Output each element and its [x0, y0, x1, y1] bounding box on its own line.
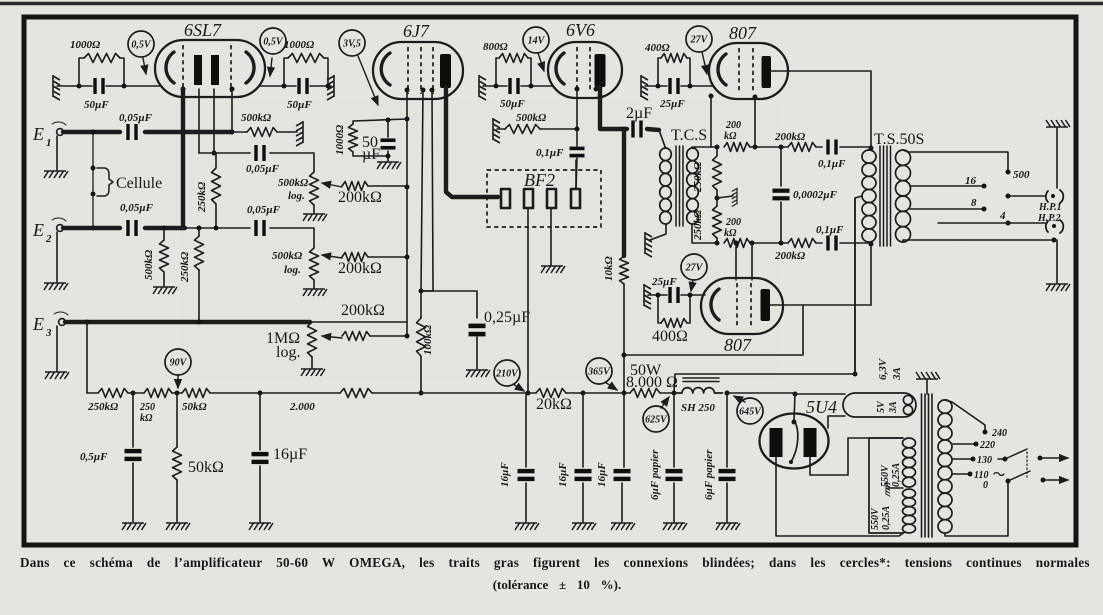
TCS secondary top wire — [692, 147, 717, 148]
807T anode wire — [771, 71, 871, 147]
BF2 pin3 wire to ground — [550, 208, 552, 265]
tube 807 bottom envelope — [701, 278, 783, 334]
svg-text:50kΩ: 50kΩ — [188, 459, 224, 476]
svg-text:200kΩ: 200kΩ — [341, 302, 385, 319]
wire grid2 line — [213, 89, 215, 153]
svg-text:500kΩ: 500kΩ — [516, 112, 547, 124]
svg-text:log.: log. — [284, 264, 301, 276]
pot 500k&#937; log #1 — [310, 172, 319, 205]
807B grid wires up — [735, 243, 737, 280]
svg-text:220: 220 — [979, 440, 995, 451]
wire grid1 line — [198, 89, 200, 153]
svg-text:200kΩ: 200kΩ — [338, 189, 382, 206]
6SL7 grid 1 dashed — [182, 45, 184, 92]
svg-text:645V: 645V — [739, 406, 762, 417]
switch upper arm — [1005, 449, 1027, 459]
svg-text:807: 807 — [729, 23, 757, 43]
TS50S secondary coil — [896, 150, 911, 165]
svg-text:log.: log. — [288, 190, 305, 202]
svg-text:400Ω: 400Ω — [652, 328, 688, 345]
wire cathode to RC — [353, 119, 407, 124]
resistor 500k&#937; 6V6 grid — [497, 128, 505, 130]
807T grids dashed — [738, 48, 740, 93]
grid bus thick 6SL7 — [181, 89, 185, 228]
svg-text:16µF: 16µF — [273, 446, 307, 463]
tube 6J7 envelope — [373, 42, 463, 99]
voltage 210V circle — [494, 360, 520, 386]
resistor 200k&#937; #1 — [322, 183, 342, 187]
svg-text:µF: µF — [362, 146, 380, 163]
svg-text:kΩ: kΩ — [724, 228, 737, 239]
svg-text:200kΩ: 200kΩ — [774, 250, 806, 262]
TCS secondary bottom wire — [692, 224, 717, 243]
svg-text:250kΩ: 250kΩ — [692, 161, 704, 193]
svg-text:0,25µF: 0,25µF — [484, 309, 530, 326]
resistor 250k&#937; upper — [715, 145, 720, 150]
807T anode bar — [762, 56, 772, 88]
6V6 cathode arc — [556, 53, 564, 84]
svg-text:250kΩ: 250kΩ — [179, 251, 191, 283]
6SL7 grid 2 dashed — [230, 45, 232, 92]
ground 50uF 6J7 — [377, 162, 401, 169]
5V winding bottom wire — [828, 416, 845, 428]
807B anode bar — [761, 289, 771, 321]
resistor 8.000&#937; — [624, 392, 630, 394]
6SL7 cathode arc left — [166, 52, 174, 83]
svg-text:E: E — [32, 124, 44, 144]
resistor 400&#937; 807T — [658, 58, 661, 86]
tube 5U4 envelope — [760, 414, 829, 469]
PT HV center tap — [888, 487, 903, 489]
6V6 anode thick down — [600, 87, 622, 129]
bus wire mid — [421, 392, 528, 394]
svg-text:800Ω: 800Ω — [483, 41, 509, 53]
svg-text:0,05µF: 0,05µF — [246, 163, 280, 175]
svg-text:E: E — [32, 220, 44, 240]
switch link dotted — [1026, 452, 1028, 477]
svg-text:0,5V: 0,5V — [263, 36, 284, 47]
svg-text:500kΩ: 500kΩ — [278, 177, 309, 189]
resistor 250k&#937; #1 vertical — [215, 153, 217, 168]
TCS secondary coil — [687, 148, 699, 161]
BF2 pin2 wire to bus — [527, 208, 529, 392]
svg-text:200kΩ: 200kΩ — [338, 260, 382, 277]
svg-text:log.: log. — [276, 344, 300, 361]
resistor 200k&#937; chain-bot-1 — [724, 239, 750, 248]
svg-text:5U4: 5U4 — [806, 397, 837, 417]
svg-text:6,3V: 6,3V — [877, 357, 889, 380]
ground 6SL7 cathode left — [53, 75, 60, 100]
capacitor 16&#181;F a — [259, 393, 261, 450]
HP common down to ground — [1054, 240, 1057, 283]
page top rule — [0, 2, 1103, 5]
ground E2 — [56, 232, 58, 282]
arrow 0,5V to wire — [143, 58, 146, 74]
capacitor 50&#181;F 6V6 — [508, 78, 511, 94]
svg-text:210V: 210V — [495, 368, 519, 379]
6J7 grids dashed — [407, 47, 409, 94]
807T grid pins — [709, 94, 714, 99]
svg-text:16µF: 16µF — [499, 462, 511, 487]
svg-text:10kΩ: 10kΩ — [603, 256, 615, 282]
svg-text:Cellule: Cellule — [116, 175, 162, 192]
tap 220 — [952, 443, 974, 445]
svg-text:8: 8 — [971, 197, 977, 209]
arrow 625V — [661, 397, 669, 408]
5U4 anode bar right — [804, 428, 817, 457]
6V6 grid wire down — [576, 89, 578, 146]
voltage 27V circle top — [686, 26, 712, 52]
resistor 10k&#937; — [620, 256, 629, 284]
voltage 365V circle — [586, 358, 612, 384]
resistor 200k&#937; #3 — [322, 336, 342, 338]
capacitor 6&#181;F papier 2 — [726, 393, 728, 467]
6J7 anode bar — [440, 54, 451, 88]
capacitor 0,1&#181;F bottom chain — [826, 236, 829, 251]
wire screen row — [624, 305, 803, 355]
5U4 top feed — [794, 394, 795, 420]
jack E2 — [57, 225, 64, 232]
svg-text:E: E — [32, 314, 44, 334]
svg-text:50µF: 50µF — [287, 99, 312, 111]
6SL7 anode bar 2 — [211, 55, 219, 85]
capacitor 16&#181;F d — [623, 393, 625, 467]
wire tube pin to E1 — [231, 89, 233, 132]
node 0,25uF tap — [419, 289, 424, 294]
5U4 left anode wire — [776, 457, 905, 536]
capacitor 16&#181;F c — [582, 393, 584, 467]
resistor 1000&#937; 6J7 — [349, 124, 358, 152]
svg-text:0,1µF: 0,1µF — [536, 147, 564, 159]
svg-text:50µF: 50µF — [84, 99, 109, 111]
6J7 anode thick wire to BF2 — [446, 88, 498, 197]
capacitor 25&#181;F 807T — [668, 78, 671, 94]
PT HV winding 1 — [903, 438, 916, 448]
svg-text:14V: 14V — [528, 35, 546, 46]
ground wall 807T cathode — [641, 75, 648, 100]
ground wall 6SL7 right — [327, 75, 334, 100]
node choke right — [725, 391, 730, 396]
svg-text:kΩ: kΩ — [140, 413, 153, 424]
choke SH250 coil — [674, 388, 722, 393]
svg-text:3A: 3A — [891, 367, 903, 381]
svg-text:100kΩ: 100kΩ — [422, 324, 434, 355]
wire E1 shielded — [63, 130, 120, 134]
svg-text:0,1µF: 0,1µF — [816, 224, 844, 236]
wire E2 shielded — [63, 226, 120, 230]
6J7 cathode node — [406, 90, 408, 119]
BF2 dashed box — [487, 170, 601, 227]
TCS primary coil — [660, 148, 672, 161]
voltage 0,5V circle 1 — [128, 31, 154, 57]
secondary tap 8 wire — [910, 208, 982, 210]
HP1 plug — [1046, 191, 1048, 202]
node screen feed — [622, 127, 627, 132]
svg-text:25µF: 25µF — [659, 98, 685, 110]
node 0,05uF row1 — [212, 151, 217, 156]
HP2 plug — [1046, 221, 1048, 232]
svg-text:BF2: BF2 — [524, 170, 555, 190]
tap 130 — [952, 458, 971, 460]
cap 0,0002uF tap — [779, 145, 784, 150]
resistor 100k&#937; vertical — [417, 318, 426, 356]
svg-text:(tolérance ± 10 %).: (tolérance ± 10 %). — [493, 577, 622, 592]
svg-text:3V,5: 3V,5 — [342, 38, 361, 49]
5V winding turns — [903, 395, 912, 404]
capacitor 50&#181;F 6J7 — [387, 120, 389, 137]
arrow 27V bottom — [691, 280, 693, 291]
TS50S core — [880, 146, 891, 246]
svg-text:6V6: 6V6 — [566, 20, 595, 40]
main bus left segment — [87, 392, 98, 394]
arrow 0,5V-2 — [270, 58, 272, 76]
tap 110 — [952, 473, 968, 475]
svg-text:4: 4 — [999, 210, 1006, 222]
5U4 right anode wire — [810, 438, 901, 475]
tube 807 top envelope — [709, 43, 788, 99]
arrow 27V top — [702, 52, 707, 74]
BF2 pin4 wire up — [575, 160, 577, 189]
TCS primary bottom to ground — [650, 224, 666, 240]
5U4 filament arc — [791, 420, 798, 462]
BF2 pin 2 — [524, 189, 533, 208]
TS50S center tap — [855, 196, 862, 374]
5V winding top wire — [795, 393, 845, 395]
svg-text:27V: 27V — [690, 34, 709, 45]
resistor 1000&#937; 6SL7 cathode left — [79, 58, 84, 86]
svg-text:6µF papier: 6µF papier — [649, 449, 661, 500]
capacitor 16&#181;F b — [525, 393, 527, 467]
ground top right — [1046, 120, 1070, 127]
TS50S primary bottom node — [869, 242, 871, 244]
svg-text:25µF: 25µF — [651, 276, 677, 288]
svg-text:200: 200 — [725, 217, 741, 228]
voltage 645V circle — [737, 398, 763, 424]
voltage 0,5V circle 2 — [260, 28, 286, 54]
TS50S primary top node — [869, 148, 871, 150]
807T grid wires down — [710, 96, 712, 147]
resistor 250k&#937; #2 vertical — [197, 226, 202, 231]
svg-text:SH 250: SH 250 — [681, 402, 715, 414]
svg-text:1000Ω: 1000Ω — [70, 39, 101, 51]
voltage 14V circle — [523, 27, 549, 53]
svg-text:250: 250 — [139, 402, 155, 413]
resistor 250k&#937; lower — [716, 190, 718, 206]
arrow 210V — [513, 384, 524, 391]
capacitor 2&#181;F — [622, 127, 627, 131]
TCS core — [676, 146, 683, 226]
807B anode wire — [770, 304, 871, 306]
svg-text:200: 200 — [725, 120, 741, 131]
capacitor 6&#181;F papier 1 — [673, 393, 675, 467]
svg-text:16µF: 16µF — [557, 462, 569, 487]
capacitor 0,1&#181;F 6V6 grid — [570, 147, 585, 151]
arrow 645V — [734, 396, 745, 402]
807T cathode arc — [718, 54, 726, 85]
svg-text:0: 0 — [983, 480, 988, 491]
switch lower arm — [1008, 471, 1030, 481]
wire E3 thin cont — [310, 321, 407, 323]
6J7 pin dots — [405, 88, 410, 93]
PT core — [922, 394, 933, 537]
voltage 90V circle — [165, 349, 191, 375]
mid tap ground wall — [715, 196, 720, 201]
6J7 cathode arc — [381, 53, 390, 85]
svg-text:550V: 550V — [870, 507, 881, 530]
secondary tap 4 wire — [903, 240, 960, 242]
secondary tap 16 wire — [910, 185, 982, 187]
arrow 365V — [605, 382, 617, 390]
voltage 3V5 circle — [339, 30, 365, 56]
wire E2 to pot2 — [185, 227, 250, 229]
svg-text:400Ω: 400Ω — [644, 42, 671, 54]
svg-text:200kΩ: 200kΩ — [774, 131, 806, 143]
arrow 14V — [538, 53, 544, 71]
capacitor 0,05&#181;F row1 — [254, 145, 257, 161]
svg-text:250kΩ: 250kΩ — [692, 209, 704, 241]
bus wire to 16uF3 — [583, 392, 624, 394]
resistor 200k&#937; chain-bot-2 — [788, 239, 816, 248]
svg-text:0,25A: 0,25A — [891, 463, 902, 488]
ground wall E1 500k — [296, 121, 303, 146]
jack E3 — [59, 319, 66, 326]
ground power transformer top — [916, 372, 940, 379]
svg-text:3A: 3A — [888, 401, 899, 414]
capacitor 0,5&#181;F — [132, 393, 134, 447]
voltage 27V circle bottom — [681, 254, 707, 280]
svg-text:500kΩ: 500kΩ — [241, 112, 272, 124]
5U4 anode bar left — [770, 428, 783, 457]
svg-text:kΩ: kΩ — [724, 131, 737, 142]
tube 6SL7 envelope — [155, 40, 265, 97]
resistor 2.000 bus4 — [260, 392, 340, 394]
svg-text:3: 3 — [45, 327, 52, 339]
svg-text:0,05µF: 0,05µF — [247, 204, 281, 216]
svg-text:1: 1 — [46, 137, 52, 149]
wire E3 shielded — [65, 320, 310, 324]
svg-text:20kΩ: 20kΩ — [536, 396, 572, 413]
cellule link — [92, 132, 94, 228]
6V6 grids dashed — [576, 47, 578, 92]
resistor 50k&#937; vertical — [176, 393, 178, 447]
choke SH250 core — [683, 378, 719, 382]
B+ rail to choke — [674, 374, 855, 393]
resistor 250k&#937; bus1 — [98, 389, 128, 398]
capacitor 50&#181;F 6SL7 right — [297, 78, 300, 94]
capacitor 0,0002&#181;F — [773, 189, 790, 193]
svg-text:0,05µF: 0,05µF — [119, 112, 153, 124]
pot 500k&#937; log #2 — [310, 248, 319, 280]
svg-text:807: 807 — [724, 335, 752, 355]
PT HV winding 2 — [903, 489, 916, 498]
6SL7 cathode arc right — [246, 52, 254, 83]
resistor 500k&#937; E1 — [232, 131, 247, 133]
arrow 3V5 — [358, 56, 378, 105]
807B cathode arc — [711, 289, 719, 320]
svg-text:0,05µF: 0,05µF — [120, 202, 154, 214]
6V6 pin dots — [575, 87, 580, 92]
svg-text:Dans ce schéma de l’amplificat: Dans ce schéma de l’amplificateur 50-60 … — [20, 555, 1090, 570]
svg-text:50kΩ: 50kΩ — [182, 401, 208, 413]
capacitor 0,05&#181;F E2 — [126, 220, 129, 236]
svg-text:90V: 90V — [170, 357, 188, 368]
svg-text:500kΩ: 500kΩ — [272, 250, 303, 262]
pot 1M&#937; log — [308, 322, 317, 357]
svg-text:27V: 27V — [685, 262, 704, 273]
PT primary bottom wire — [945, 482, 1008, 536]
bus vertical from 6J7 cathode — [406, 119, 408, 336]
voltage 625V circle — [643, 406, 669, 432]
svg-text:1000Ω: 1000Ω — [334, 124, 346, 155]
ground wall 500k 6V6 — [493, 118, 500, 143]
HP feed wire — [1008, 222, 1047, 224]
svg-text:500: 500 — [1013, 169, 1030, 181]
capacitor 25&#181;F 807B — [668, 287, 671, 303]
svg-text:2: 2 — [45, 233, 52, 245]
svg-text:6µF papier: 6µF papier — [703, 449, 715, 500]
svg-text:2µF: 2µF — [626, 105, 652, 122]
6J7 grid wire down — [421, 90, 423, 291]
6V6 anode bar — [595, 54, 606, 87]
HP1 stub wire — [1006, 194, 1011, 199]
svg-text:500kΩ: 500kΩ — [143, 249, 155, 280]
svg-text:T.C.S: T.C.S — [671, 127, 707, 144]
807B grids dashed — [736, 283, 738, 328]
6J7 third pin wire — [421, 90, 433, 291]
arrow 90V — [177, 375, 179, 388]
svg-text:0,25A: 0,25A — [881, 506, 892, 531]
resistor 1000&#937; 6SL7 right — [284, 58, 288, 86]
PT primary top tap 240 — [945, 400, 985, 430]
BF2 pin 4 — [571, 189, 580, 208]
switch upper output arrow — [1040, 457, 1068, 459]
resistor 200k&#937; chain-top-2 — [788, 143, 816, 152]
svg-text:6SL7: 6SL7 — [184, 20, 222, 40]
tube 6V6 envelope — [548, 42, 622, 98]
svg-text:H.P.2: H.P.2 — [1037, 213, 1061, 224]
switch upper feed — [998, 458, 1004, 460]
svg-text:0,5V: 0,5V — [131, 39, 152, 50]
TS50S primary coil — [862, 150, 876, 163]
svg-text:130: 130 — [977, 455, 992, 466]
svg-text:5V: 5V — [876, 400, 887, 413]
resistor 250k&#937; bus2 — [144, 389, 172, 398]
secondary tap 500 wire — [903, 150, 1008, 170]
svg-text:625V: 625V — [645, 414, 668, 425]
jack E1 — [57, 129, 64, 136]
5U4 filament right wire — [854, 198, 856, 374]
resistor 200k&#937; #2 — [322, 255, 342, 258]
5V winding pill — [843, 393, 916, 417]
BF2 pin 1 — [501, 189, 510, 208]
capacitor 50&#181;F 6SL7 left — [93, 78, 96, 94]
resistor 50k&#937; bus3 — [182, 389, 210, 398]
svg-text:365V: 365V — [587, 366, 611, 377]
svg-text:240: 240 — [991, 428, 1007, 439]
capacitor 0,25&#181;F — [469, 324, 486, 329]
ground wall 6V6 cathode — [479, 75, 486, 100]
BF2 pin 3 — [547, 189, 556, 208]
svg-text:6J7: 6J7 — [403, 21, 430, 41]
resistor 800&#937; 6V6 — [496, 58, 499, 86]
svg-text:H.P.1: H.P.1 — [1038, 202, 1062, 213]
resistor 400&#937; 807B — [658, 295, 661, 323]
6SL7 anode bar 1 — [194, 55, 202, 85]
secondary common wire — [960, 239, 1054, 241]
svg-text:250kΩ: 250kΩ — [196, 181, 208, 213]
node E3 bus feed — [85, 320, 90, 325]
svg-text:0,0002µF: 0,0002µF — [793, 189, 838, 201]
